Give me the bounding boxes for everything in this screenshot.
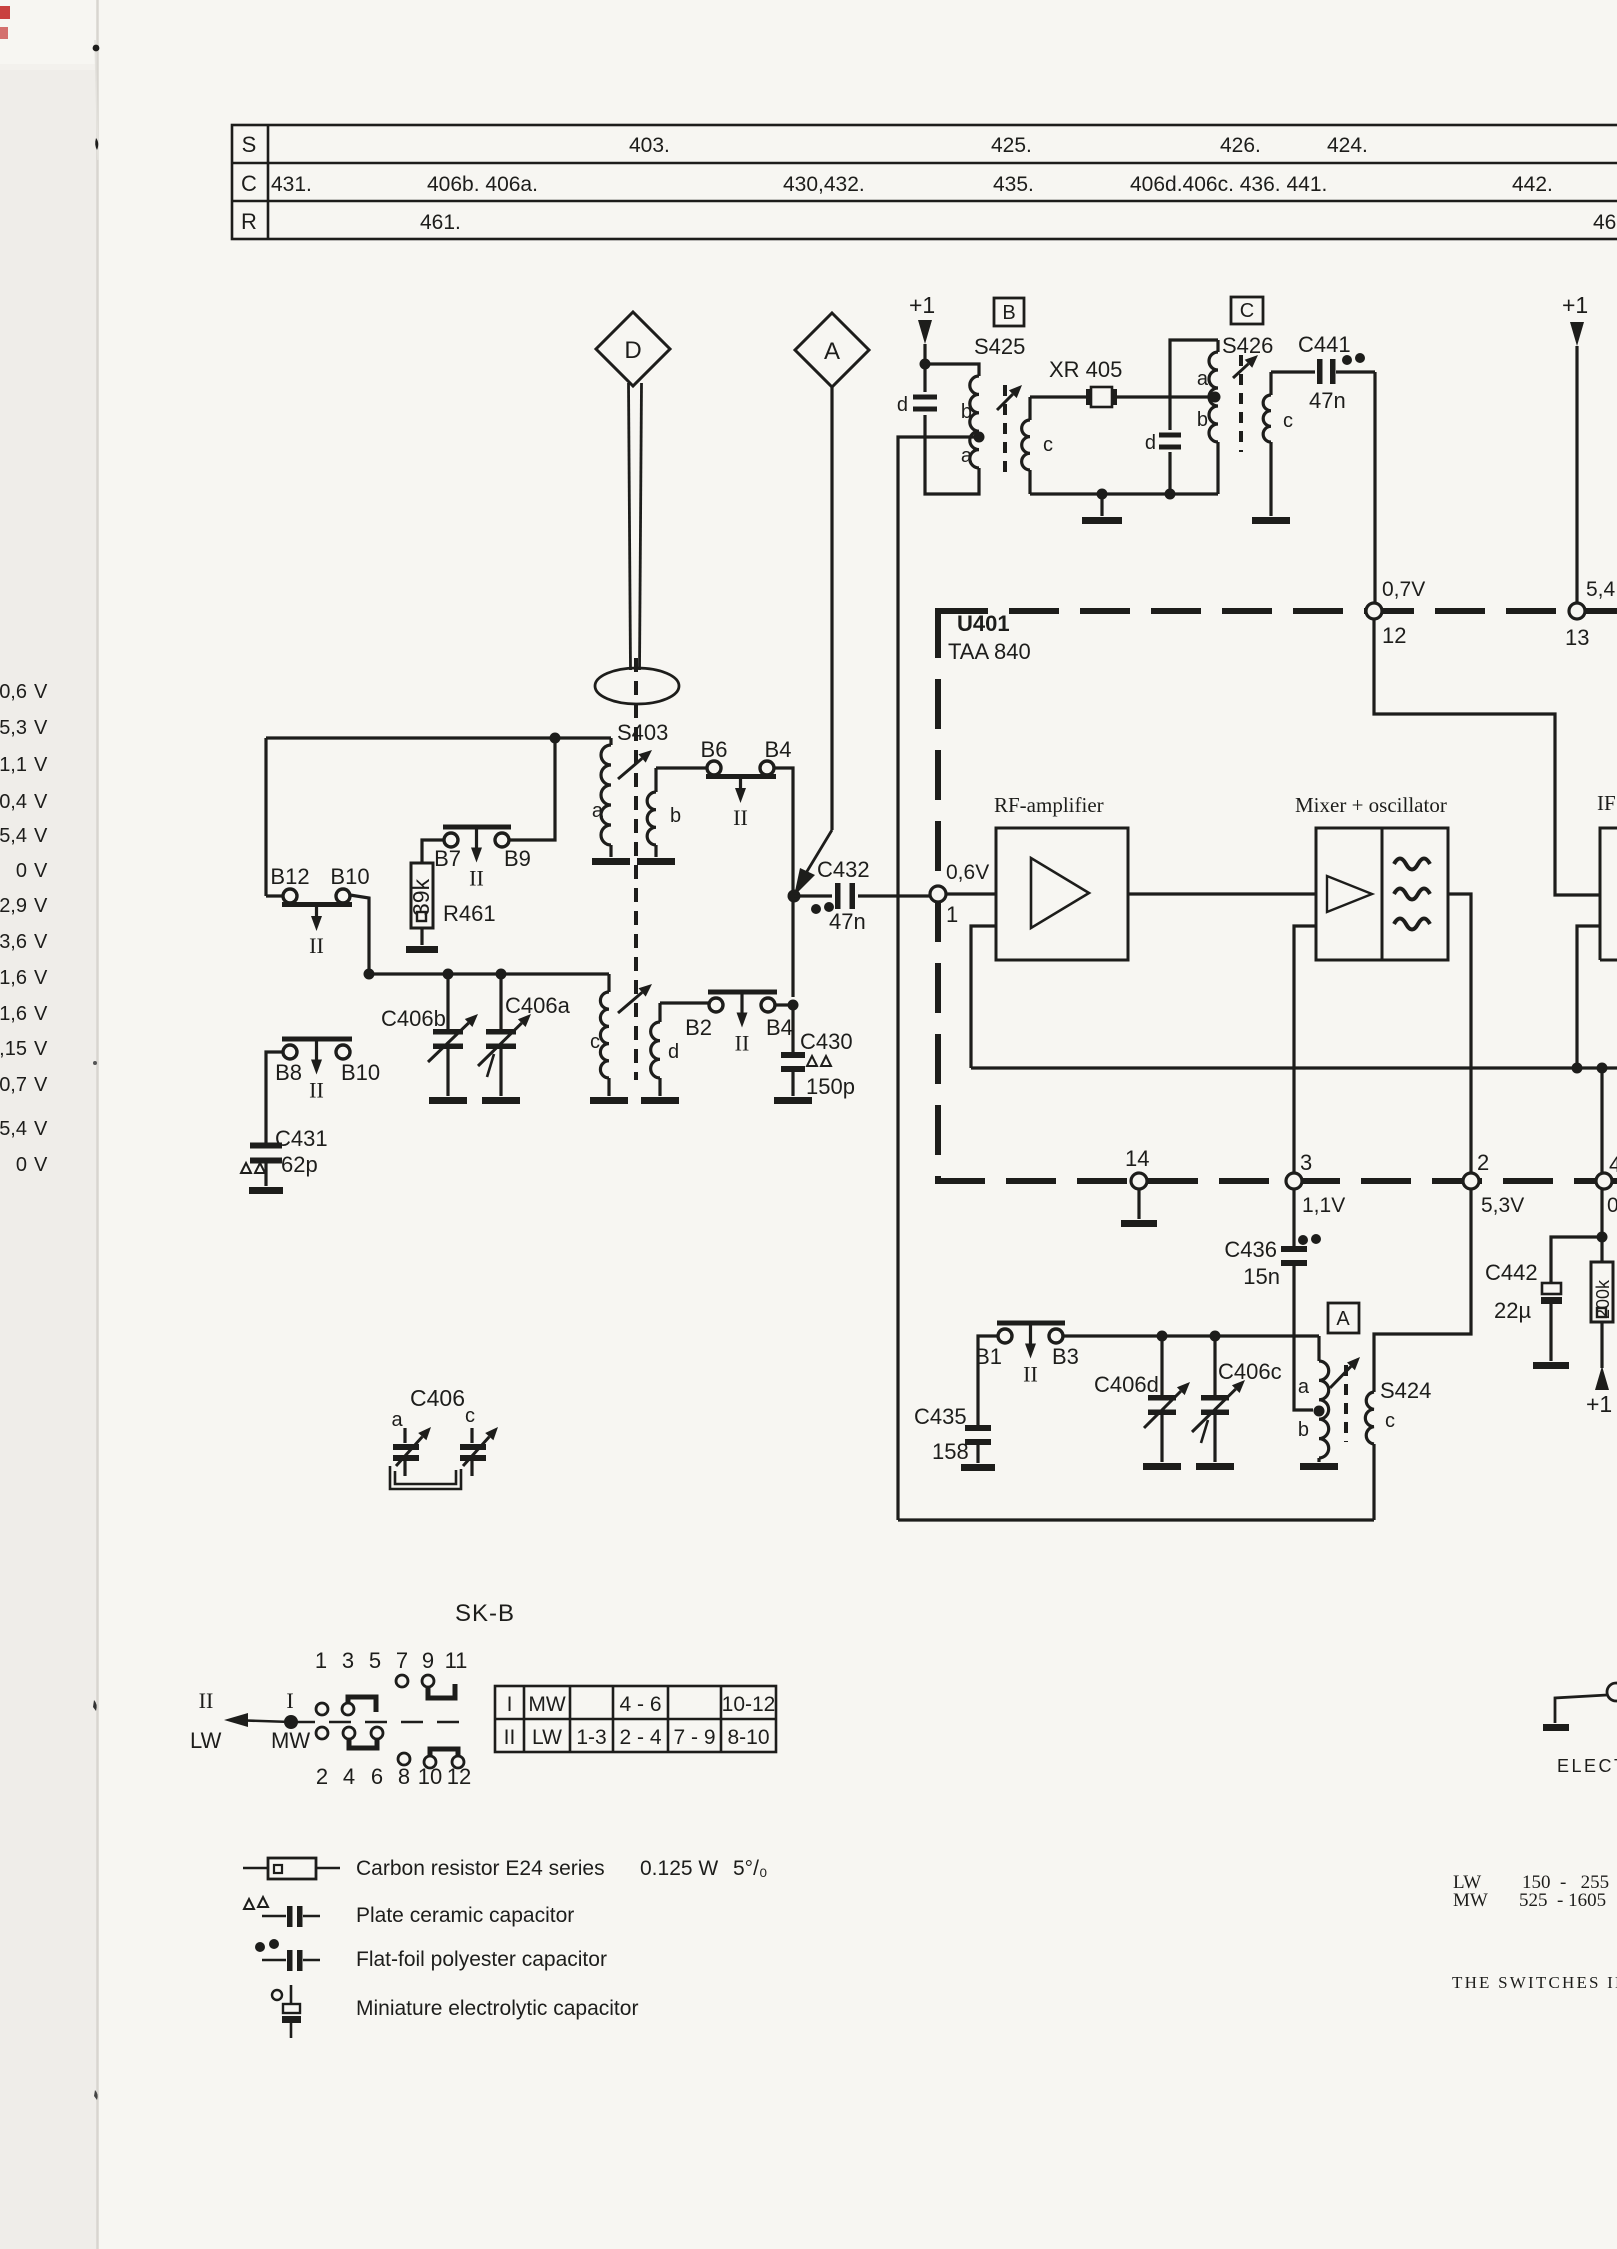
connector diamond D	[596, 312, 670, 386]
svg-text:13: 13	[1565, 625, 1589, 650]
resistor R 200k	[1591, 1262, 1613, 1322]
svg-text:9: 9	[422, 1648, 434, 1673]
svg-text:C: C	[241, 171, 257, 196]
svg-text:D: D	[624, 337, 641, 364]
svg-text:V: V	[34, 825, 48, 847]
wire B12 stub	[266, 894, 283, 897]
svg-text:II: II	[1023, 1362, 1038, 1387]
svg-text:158: 158	[932, 1439, 969, 1464]
legend plate ceramic symbol	[244, 1897, 268, 1909]
capacitor C430 150p	[791, 1005, 794, 1054]
svg-text:7 - 9: 7 - 9	[673, 1726, 715, 1749]
svg-text:435.: 435.	[993, 173, 1034, 196]
svg-text:S426: S426	[1222, 333, 1273, 358]
svg-text:0: 0	[16, 860, 27, 882]
S424 winding c	[1365, 1392, 1374, 1444]
wire B1 to C435	[978, 1336, 998, 1426]
svg-text:14: 14	[1125, 1146, 1149, 1171]
Mixer block	[1316, 828, 1448, 960]
svg-text:B6: B6	[701, 737, 728, 762]
S403 trimmer arrow bottom	[618, 992, 642, 1013]
wire IF to AGC	[1577, 926, 1600, 1068]
node B10 bus	[364, 969, 375, 980]
svg-text:C431: C431	[275, 1126, 328, 1151]
svg-text:b: b	[961, 401, 972, 423]
S424 trimmer arrow	[1330, 1366, 1351, 1388]
capacitor C431 62p	[250, 1143, 282, 1149]
svg-text:IF: IF	[1597, 791, 1616, 815]
svg-text:0: 0	[1607, 1194, 1617, 1217]
svg-text:V: V	[34, 1118, 48, 1140]
svg-text:MW: MW	[1453, 1890, 1488, 1911]
svg-text:0,7: 0,7	[0, 1074, 27, 1096]
node C432	[788, 890, 801, 903]
wire pin1 to RF	[946, 892, 996, 895]
svg-text:+1: +1	[909, 292, 935, 318]
ground under C442	[1533, 1362, 1569, 1369]
node C406c	[1210, 1331, 1221, 1342]
pin 12	[1366, 603, 1382, 619]
svg-text:461.: 461.	[1593, 211, 1617, 234]
svg-text:1,6: 1,6	[0, 1003, 27, 1025]
svg-text:5: 5	[369, 1648, 381, 1673]
svg-text:B9: B9	[504, 846, 531, 871]
svg-text:10-12: 10-12	[722, 1693, 776, 1716]
svg-text:5,4 V: 5,4 V	[1586, 578, 1617, 601]
svg-text:0.125 W: 0.125 W	[640, 1857, 718, 1880]
svg-text:Mixer + oscillator: Mixer + oscillator	[1295, 793, 1447, 817]
ground under C406c	[1196, 1463, 1234, 1470]
svg-text:1,1: 1,1	[0, 754, 27, 776]
wire B4 to node	[775, 1003, 793, 1006]
SK-B contact 8	[398, 1753, 410, 1765]
svg-text:a: a	[391, 1409, 403, 1431]
svg-text:LW: LW	[190, 1728, 222, 1753]
svg-text:II: II	[735, 1031, 750, 1056]
S426 winding c	[1269, 372, 1272, 395]
S426 left branch	[1168, 452, 1171, 494]
SK-B bridge 4-6	[349, 1735, 377, 1748]
box C	[1231, 297, 1263, 324]
svg-text:V: V	[34, 1074, 48, 1096]
switch B1-B3	[998, 1329, 1012, 1343]
svg-text:II: II	[199, 1688, 214, 1713]
svg-text:4 - 6: 4 - 6	[619, 1693, 661, 1716]
svg-text:B3: B3	[1052, 1344, 1079, 1369]
S403 winding c	[607, 974, 610, 992]
svg-text:431.: 431.	[271, 173, 312, 196]
SK-B band table	[495, 1686, 776, 1752]
connector diamond A	[795, 313, 869, 387]
wire mixer to pin2	[1448, 894, 1471, 1173]
legend flat-foil symbol	[255, 1942, 265, 1952]
svg-text:V: V	[34, 791, 48, 813]
svg-text:S425: S425	[974, 334, 1025, 359]
node AGC a	[1572, 1063, 1583, 1074]
wire pin12 to IF	[1374, 619, 1599, 895]
wire mixer to pin3	[1294, 926, 1316, 1173]
capacitor C406c	[1213, 1336, 1216, 1396]
svg-text:5°/₀: 5°/₀	[733, 1857, 768, 1880]
svg-text:II: II	[469, 866, 484, 891]
pin 2	[1463, 1173, 1479, 1189]
C406 section a	[403, 1428, 406, 1443]
capacitor C442 22u	[1551, 1237, 1602, 1283]
S403 trimmer arrow top	[618, 758, 642, 779]
node C430	[788, 1000, 799, 1011]
wire top bus to S403	[266, 736, 611, 739]
svg-text:a: a	[961, 445, 973, 467]
SK-B bridge 9-11	[428, 1684, 455, 1698]
svg-text:THE SWITCHES IN: THE SWITCHES IN	[1452, 1973, 1617, 1992]
svg-text:V: V	[34, 1003, 48, 1025]
svg-text:II: II	[504, 1726, 516, 1749]
S403 winding b	[654, 768, 657, 792]
capacitor C432 47n	[794, 894, 832, 897]
svg-text:4: 4	[343, 1764, 355, 1789]
pin 3	[1286, 1173, 1302, 1189]
svg-text:II: II	[733, 805, 748, 830]
ground under S424 ab	[1300, 1463, 1338, 1470]
svg-text:0,6: 0,6	[0, 681, 27, 703]
S425 winding c	[1028, 397, 1031, 420]
capacitor C406b	[446, 974, 449, 1030]
AGC feedback rail	[971, 1066, 1617, 1069]
svg-text:C406d: C406d	[1094, 1372, 1159, 1397]
svg-text:ELECT: ELECT	[1557, 1756, 1617, 1776]
S403 core (dashed)	[634, 658, 638, 1080]
svg-text:II: II	[309, 1078, 324, 1103]
svg-text:V: V	[34, 1038, 48, 1060]
SK-B actuator arrow	[284, 1715, 298, 1729]
S424 winding a-b	[1317, 1336, 1320, 1361]
switch B8-B10	[283, 1045, 297, 1059]
svg-text:0,7V: 0,7V	[1382, 578, 1425, 601]
wire pin4 up	[1600, 1068, 1603, 1173]
box B	[994, 298, 1024, 326]
node C406a	[496, 969, 507, 980]
svg-text:1: 1	[315, 1648, 327, 1673]
svg-text:0,4: 0,4	[0, 791, 27, 813]
node C406b	[443, 969, 454, 980]
svg-text:7: 7	[396, 1648, 408, 1673]
svg-text:1: 1	[946, 902, 958, 927]
node at S403 top	[550, 733, 561, 744]
svg-text:B10: B10	[330, 864, 369, 889]
bottom wire of S425/S426 cell	[1030, 492, 1218, 495]
svg-text:LW: LW	[532, 1726, 562, 1749]
svg-text:B10: B10	[341, 1060, 380, 1085]
svg-text:C406: C406	[410, 1385, 465, 1411]
node gnd stub	[1097, 489, 1108, 500]
S426 trimmer arrow	[1233, 364, 1248, 378]
crystal XR405	[1086, 389, 1091, 405]
ground under winding d	[641, 1097, 679, 1104]
C406 section c	[470, 1428, 473, 1443]
ferrite rod antenna	[629, 383, 631, 670]
svg-text:I: I	[507, 1693, 513, 1716]
svg-text:R461: R461	[443, 901, 496, 926]
svg-text:a: a	[1298, 1376, 1310, 1398]
svg-text:V: V	[34, 967, 48, 989]
svg-text:C442: C442	[1485, 1260, 1538, 1285]
ground under C431	[249, 1187, 283, 1194]
switch B6-B4	[707, 761, 721, 775]
svg-text:V: V	[34, 754, 48, 776]
S403 winding a	[609, 738, 612, 745]
svg-text:403.: 403.	[629, 134, 670, 157]
svg-text:406d.406c. 436. 441.: 406d.406c. 436. 441.	[1130, 173, 1327, 196]
svg-text:c: c	[1043, 434, 1053, 456]
svg-text:S424: S424	[1380, 1378, 1431, 1403]
RF-amplifier block	[996, 828, 1128, 960]
svg-text:47n: 47n	[1309, 388, 1346, 413]
svg-text:2: 2	[316, 1764, 328, 1789]
SK-B contact 1	[316, 1703, 328, 1715]
svg-text:C: C	[1240, 300, 1254, 322]
svg-text:Carbon resistor E24 series: Carbon resistor E24 series	[356, 1857, 605, 1880]
svg-text:5,3V: 5,3V	[1481, 1194, 1524, 1217]
wire RF to mixer	[1128, 892, 1316, 895]
svg-text:XR 405: XR 405	[1049, 357, 1122, 382]
svg-text:5,4: 5,4	[0, 1118, 27, 1140]
S425 trimmer arrow	[997, 394, 1013, 410]
svg-text:1,1V: 1,1V	[1302, 1194, 1345, 1217]
svg-text:C436: C436	[1224, 1237, 1277, 1262]
S425 frame	[925, 364, 979, 376]
SK-B bridge 3-5	[348, 1697, 376, 1712]
ground under C435	[961, 1464, 995, 1471]
resistor R461 39k	[411, 863, 433, 928]
svg-text:430,432.: 430,432.	[783, 173, 865, 196]
component location table frame	[232, 125, 1617, 239]
capacitor S425-d	[913, 395, 937, 400]
svg-text:406b. 406a.: 406b. 406a.	[427, 173, 538, 196]
S425 core (dashed)	[1003, 385, 1007, 473]
svg-text:11: 11	[445, 1648, 468, 1673]
svg-text:c: c	[1385, 1410, 1395, 1432]
wire from A to C432 node	[830, 387, 833, 830]
wire B9 up to top bus	[509, 738, 555, 840]
pin 13	[1569, 603, 1585, 619]
svg-text:0,15: 0,15	[0, 1038, 27, 1060]
ground under winding a	[592, 858, 630, 865]
SK-B bridge 10-12	[430, 1749, 458, 1762]
svg-text:C406a: C406a	[505, 993, 571, 1018]
scan specks	[93, 45, 100, 52]
svg-text:B2: B2	[685, 1015, 712, 1040]
svg-text:4: 4	[1609, 1152, 1617, 1177]
S403 winding d	[658, 1003, 661, 1022]
svg-text:RF-amplifier: RF-amplifier	[994, 793, 1104, 817]
scan left margin strip	[0, 0, 97, 2249]
svg-text:+1: +1	[1562, 292, 1588, 318]
C406 gang frame	[390, 1466, 461, 1489]
pin 1	[930, 886, 946, 902]
switch B2-B4	[709, 998, 723, 1012]
svg-text:3: 3	[342, 1648, 354, 1673]
svg-text:a: a	[1197, 368, 1209, 390]
S424 core (dashed)	[1344, 1365, 1348, 1442]
svg-text:C406c: C406c	[1218, 1359, 1282, 1384]
svg-text:200k: 200k	[1593, 1279, 1613, 1319]
capacitor C436 15n	[1292, 1189, 1295, 1247]
svg-text:TAA 840: TAA 840	[948, 639, 1031, 664]
wire d to B2	[660, 1001, 709, 1004]
svg-text:II: II	[309, 933, 324, 958]
svg-text:b: b	[670, 805, 681, 827]
svg-text:B8: B8	[275, 1060, 302, 1085]
capacitor C435 158	[965, 1425, 991, 1431]
svg-text:U401: U401	[957, 611, 1010, 636]
capacitor C406d	[1160, 1336, 1163, 1396]
svg-text:B: B	[1002, 302, 1015, 324]
svg-text:C406b: C406b	[381, 1006, 446, 1031]
S425 tap node	[974, 432, 985, 443]
legend electrolytic symbol	[272, 1990, 282, 2000]
svg-text:b: b	[1298, 1419, 1309, 1441]
svg-text:V: V	[34, 681, 48, 703]
svg-text:I: I	[286, 1688, 293, 1713]
wire B4 to vertical bus	[774, 768, 793, 997]
wire B10 down to bus	[350, 895, 369, 974]
svg-text:MW: MW	[528, 1693, 565, 1716]
ground under C406d	[1143, 1463, 1181, 1470]
svg-text:22µ: 22µ	[1494, 1298, 1531, 1323]
svg-text:B7: B7	[434, 846, 461, 871]
node AGC b	[1597, 1063, 1608, 1074]
svg-text:d: d	[1145, 432, 1156, 454]
wire XR405 to S426 tap	[1117, 395, 1215, 398]
wire B8 to C431	[266, 1052, 283, 1145]
capacitor C406a	[499, 974, 502, 1030]
svg-text:d: d	[897, 394, 908, 416]
svg-text:3,6: 3,6	[0, 931, 27, 953]
svg-text:A: A	[1336, 1308, 1350, 1330]
svg-text:V: V	[34, 860, 48, 882]
wire B6 to winding b	[656, 766, 707, 769]
wire pin4 down	[1600, 1189, 1603, 1262]
pin 14 ground	[1137, 1189, 1140, 1219]
svg-text:C435: C435	[914, 1404, 967, 1429]
svg-text:V: V	[34, 717, 48, 739]
svg-text:525 - 1605: 525 - 1605	[1519, 1890, 1606, 1911]
svg-text:d: d	[668, 1041, 679, 1063]
ground under winding c	[590, 1097, 628, 1104]
SK-B travel dashed line	[293, 1721, 470, 1724]
svg-text:39k: 39k	[408, 878, 434, 916]
svg-text:442.: 442.	[1512, 173, 1553, 196]
svg-text:3: 3	[1300, 1150, 1312, 1175]
IF block	[1600, 828, 1617, 960]
S426 tap node	[1210, 392, 1221, 403]
svg-text:426.: 426.	[1220, 134, 1261, 157]
wire R461 to ground	[420, 928, 423, 945]
svg-text:c: c	[465, 1405, 475, 1427]
pin 14	[1131, 1173, 1147, 1189]
svg-text:V: V	[34, 931, 48, 953]
SK-B contact 7	[396, 1675, 408, 1687]
svg-text:150p: 150p	[806, 1074, 855, 1099]
svg-text:A: A	[824, 338, 840, 365]
AGC bottom loop	[898, 1518, 1374, 1521]
svg-text:2: 2	[1477, 1150, 1489, 1175]
svg-text:C430: C430	[800, 1029, 853, 1054]
node S425 top	[920, 359, 931, 370]
RF feedback wire	[971, 926, 996, 1068]
svg-text:+1: +1	[1586, 1391, 1612, 1417]
wire B7 to R461	[422, 840, 444, 863]
svg-text:b: b	[1197, 409, 1208, 431]
svg-text:6: 6	[371, 1764, 383, 1789]
wire pin2 to S424c	[1374, 1189, 1471, 1392]
svg-text:R: R	[241, 209, 257, 234]
node C406d	[1157, 1331, 1168, 1342]
wire B3 rail	[1063, 1334, 1319, 1337]
S426 winding a-b	[1216, 340, 1219, 352]
S424 tap node	[1314, 1406, 1325, 1417]
wire C441 to pin12	[1373, 372, 1376, 604]
svg-text:MW: MW	[271, 1728, 310, 1753]
svg-text:B4: B4	[766, 1015, 793, 1040]
svg-text:0,6V: 0,6V	[946, 861, 989, 884]
+1 supply bottom	[1600, 1322, 1603, 1368]
wire S425c to XR405	[1030, 395, 1086, 398]
svg-text:c: c	[1283, 410, 1293, 432]
svg-text:S403: S403	[617, 720, 668, 745]
svg-text:461.: 461.	[420, 211, 461, 234]
svg-text:2 - 4: 2 - 4	[619, 1726, 661, 1749]
switch B7-B9	[444, 833, 458, 847]
S425 winding b-a	[970, 376, 979, 468]
svg-text:12: 12	[1382, 623, 1406, 648]
svg-text:C432: C432	[817, 857, 870, 882]
svg-text:425.: 425.	[991, 134, 1032, 157]
capacitor C441 47n	[1271, 370, 1315, 373]
svg-text:8-10: 8-10	[727, 1726, 769, 1749]
svg-text:15n: 15n	[1243, 1264, 1280, 1289]
IC U401 dashed outline	[935, 608, 1617, 1181]
svg-text:2,9: 2,9	[0, 895, 27, 917]
svg-text:Flat-foil polyester capacitor: Flat-foil polyester capacitor	[356, 1948, 607, 1971]
S426 core (dashed)	[1239, 355, 1243, 452]
ground under R461	[406, 946, 438, 953]
ground under C406a	[482, 1097, 520, 1104]
wire left frame	[264, 738, 267, 896]
ground stub S425 cell	[1100, 494, 1103, 516]
svg-text:1,6: 1,6	[0, 967, 27, 989]
svg-text:47n: 47n	[829, 909, 866, 934]
svg-text:C441: C441	[1298, 332, 1351, 357]
pin 4	[1596, 1173, 1612, 1189]
red registration marks	[0, 6, 10, 19]
svg-text:1-3: 1-3	[576, 1726, 606, 1749]
node C442	[1597, 1232, 1608, 1243]
legend carbon resistor symbol	[243, 1867, 268, 1870]
box A	[1328, 1303, 1359, 1333]
svg-text:B4: B4	[765, 737, 792, 762]
node d2	[1165, 489, 1176, 500]
svg-text:62p: 62p	[281, 1152, 318, 1177]
svg-text:Plate ceramic capacitor: Plate ceramic capacitor	[356, 1904, 574, 1927]
svg-text:Miniature electrolytic capacit: Miniature electrolytic capacitor	[356, 1997, 638, 2020]
SK-B contact MW row	[316, 1727, 328, 1739]
ground under C430	[774, 1097, 812, 1104]
svg-text:B12: B12	[270, 864, 309, 889]
horizontal bus to winding c	[369, 972, 609, 975]
svg-text:5,4: 5,4	[0, 825, 27, 847]
wire S425 tap to AGC rail	[898, 437, 979, 1520]
